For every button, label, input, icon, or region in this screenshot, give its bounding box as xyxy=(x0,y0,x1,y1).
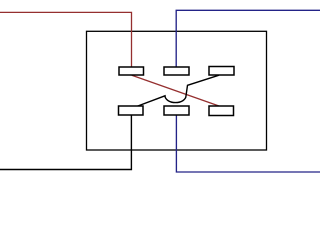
relay body outline xyxy=(87,31,267,150)
terminal pin 2 (top-middle) xyxy=(164,67,189,75)
wire: blue from pin 2 to right edge (top) xyxy=(176,10,320,67)
terminal pin 3 (top-right) xyxy=(209,67,234,76)
terminal pin 6 (bottom-right) xyxy=(209,106,234,116)
wire: red diagonal pin1 to pin6 xyxy=(132,75,219,106)
contact armature: black from pin4 to pin3 with hop xyxy=(137,75,220,106)
wire: blue from pin 5 to right edge (bottom) xyxy=(176,115,320,172)
terminal pin 4 (bottom-left) xyxy=(119,106,144,115)
terminal pin 5 (bottom-middle) xyxy=(164,106,189,115)
wire: red supply from left edge to pin 1 xyxy=(0,12,132,67)
terminal pin 1 (top-left) xyxy=(119,67,144,75)
wire: black from pin 4 to left edge (bottom) xyxy=(0,115,131,170)
